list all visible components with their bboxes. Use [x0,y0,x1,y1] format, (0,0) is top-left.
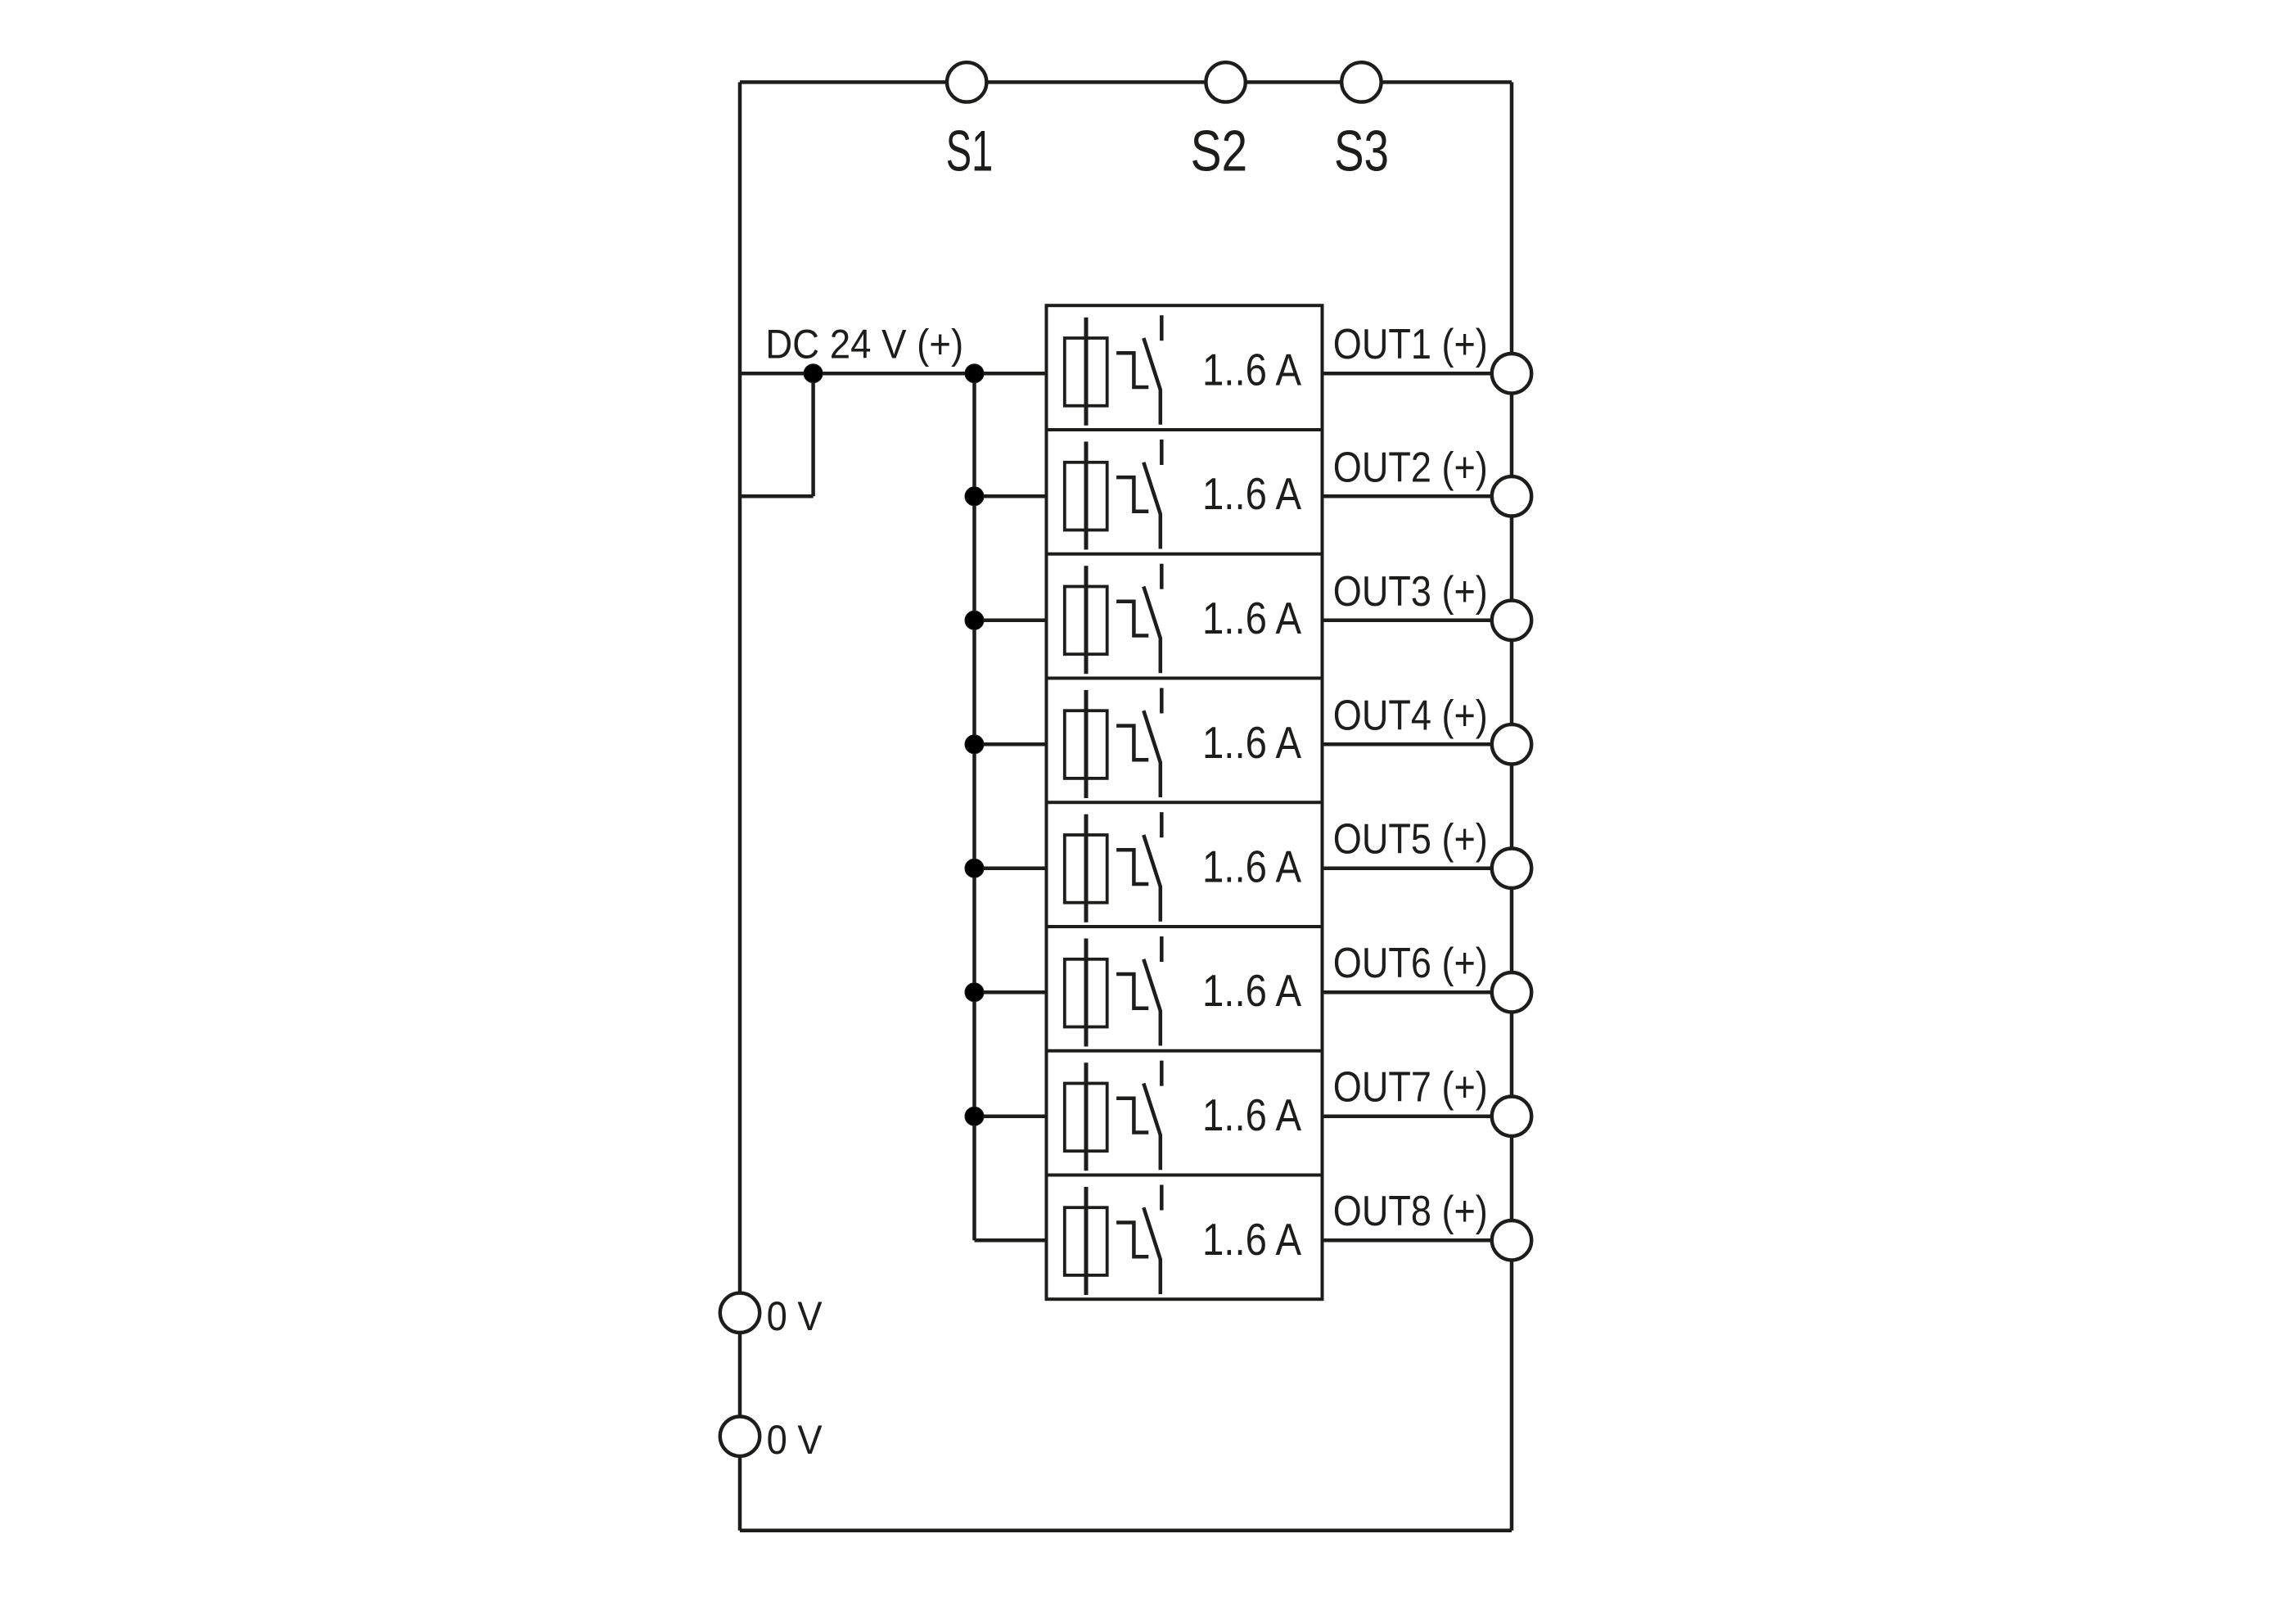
svg-text:OUT6 (+): OUT6 (+) [1333,940,1488,987]
svg-text:1..6 A: 1..6 A [1202,966,1301,1016]
svg-text:1..6 A: 1..6 A [1202,593,1301,643]
svg-text:OUT3 (+): OUT3 (+) [1333,568,1488,616]
svg-text:1..6 A: 1..6 A [1202,1215,1301,1265]
svg-text:0 V: 0 V [767,1293,823,1339]
svg-text:OUT5 (+): OUT5 (+) [1333,816,1488,864]
svg-text:1..6 A: 1..6 A [1202,842,1301,892]
svg-text:OUT4 (+): OUT4 (+) [1333,692,1488,739]
svg-text:1..6 A: 1..6 A [1202,345,1301,395]
svg-text:S1: S1 [946,118,994,183]
svg-text:0 V: 0 V [767,1417,823,1463]
svg-text:1..6 A: 1..6 A [1202,718,1301,768]
svg-text:OUT2 (+): OUT2 (+) [1333,444,1488,491]
svg-text:1..6 A: 1..6 A [1202,1090,1301,1140]
svg-text:OUT8 (+): OUT8 (+) [1333,1188,1488,1235]
svg-text:S2: S2 [1191,118,1248,183]
svg-text:DC 24 V (+): DC 24 V (+) [765,322,963,368]
svg-text:OUT7 (+): OUT7 (+) [1333,1064,1488,1112]
svg-text:1..6 A: 1..6 A [1202,469,1301,519]
svg-text:OUT1 (+): OUT1 (+) [1333,321,1488,368]
svg-text:S3: S3 [1334,118,1389,183]
